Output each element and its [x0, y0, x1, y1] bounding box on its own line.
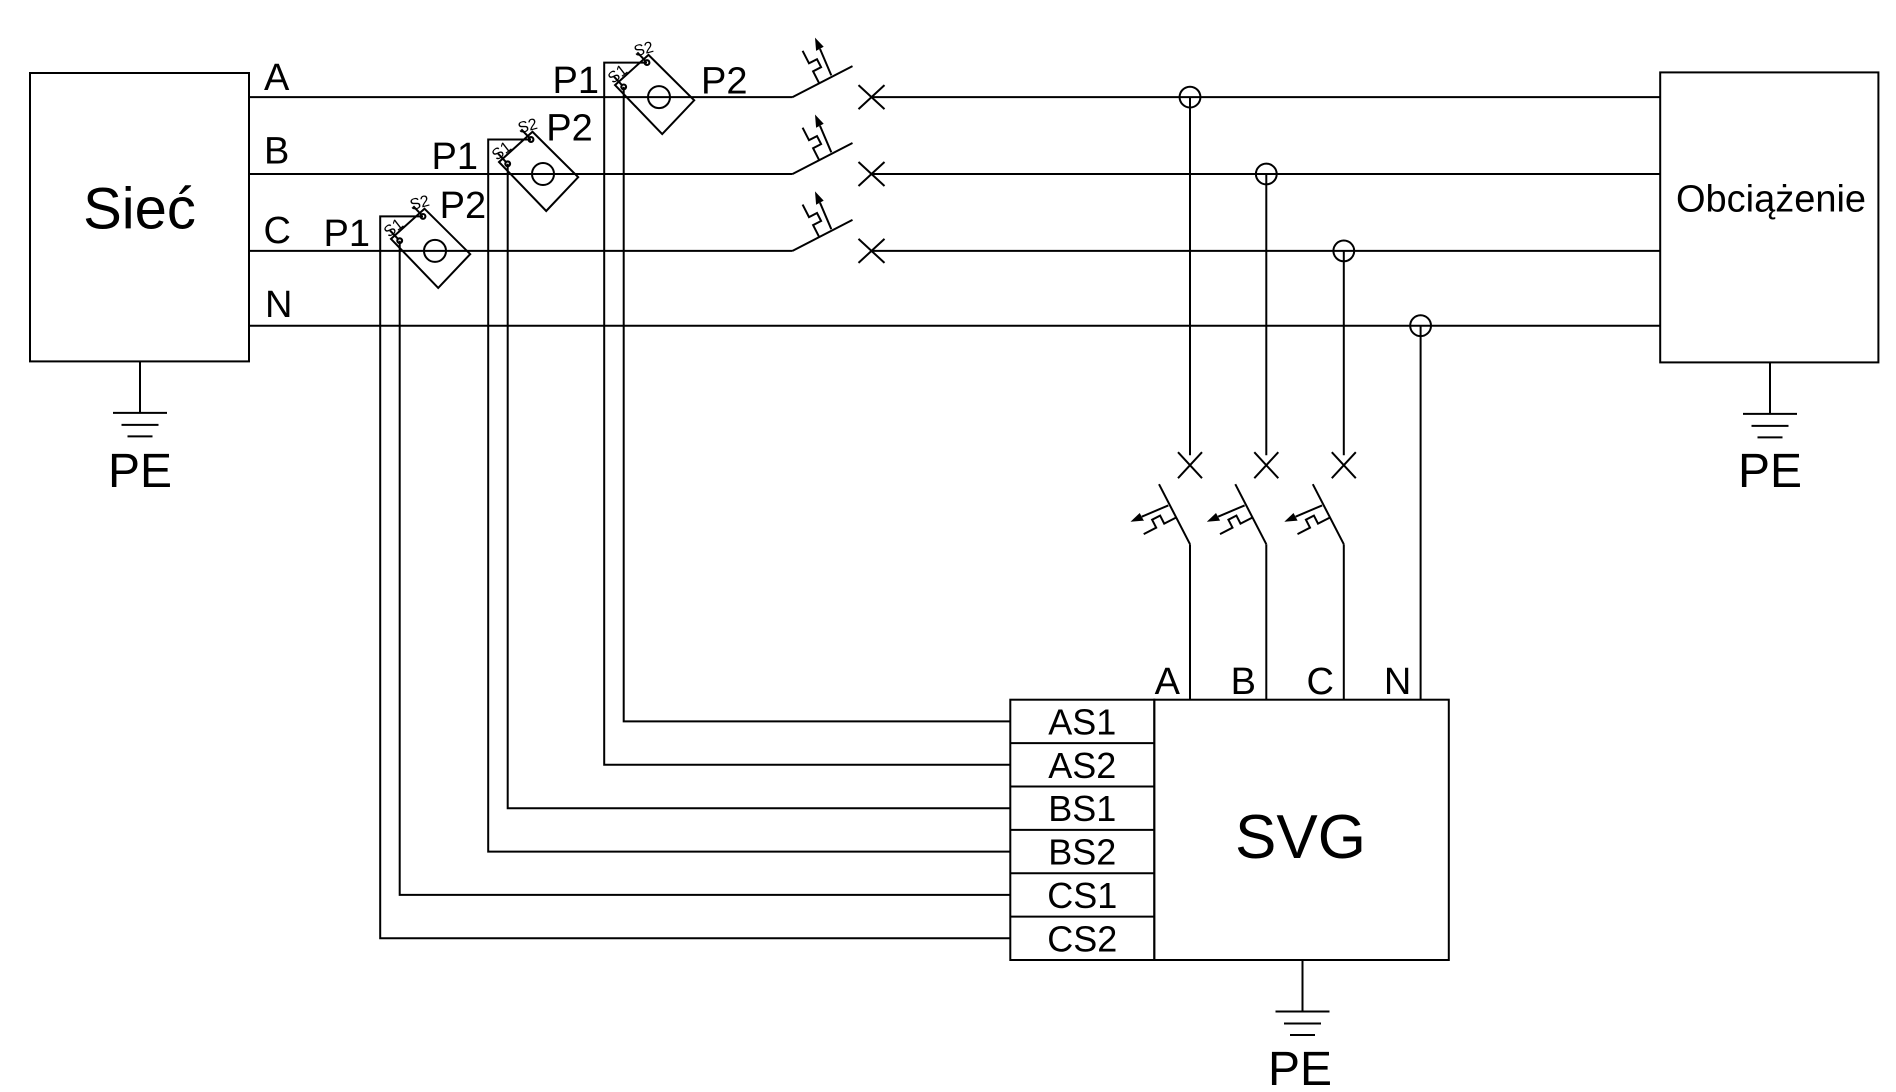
svg-text:P1: P1: [432, 136, 478, 178]
svg-text:PE: PE: [1738, 445, 1802, 498]
svg-text:C: C: [264, 210, 291, 252]
wire phase C left segment: [249, 250, 793, 252]
svg-text:P1: P1: [553, 60, 599, 102]
svg-text:P2: P2: [701, 61, 747, 103]
wire phase C right segment: [872, 250, 1660, 252]
SVG branch breaker C: [1284, 452, 1356, 544]
ground at SVG: [1276, 960, 1330, 1035]
svg-text:N: N: [265, 284, 292, 326]
node A junction: [1180, 87, 1201, 108]
SVG main box: [1154, 700, 1449, 960]
current transformer TA on phase A: [605, 39, 694, 134]
circuit breaker phase A: [793, 38, 885, 110]
terminal divider 5: [1010, 916, 1154, 918]
svg-text:N: N: [1384, 661, 1411, 703]
wire TB S2 to terminal BS2: [488, 140, 1010, 852]
tap wire C lower: [1343, 544, 1345, 700]
wire TC S1 to terminal CS1: [400, 241, 1011, 895]
wire neutral N: [249, 325, 1660, 327]
wire phase A left segment: [249, 96, 793, 98]
svg-text:BS1: BS1: [1048, 788, 1116, 829]
wire TC S2 to terminal CS2: [380, 216, 1010, 938]
circuit breaker phase C: [793, 191, 885, 263]
svg-text:A: A: [1155, 661, 1181, 703]
Sieć source box: [30, 73, 249, 361]
ground: [1743, 362, 1797, 437]
wire phase A right segment: [872, 96, 1660, 98]
terminal divider 3: [1010, 829, 1154, 831]
current transformer TC on phase C: [381, 193, 470, 288]
svg-text:Sieć: Sieć: [83, 177, 196, 242]
svg-text:AS2: AS2: [1048, 745, 1116, 786]
tap wire B upper: [1265, 174, 1267, 455]
tap wire C upper: [1343, 251, 1345, 455]
wire TB S1 to terminal BS1: [508, 164, 1011, 808]
terminal divider 4: [1010, 872, 1154, 874]
current transformer TB on phase B: [489, 116, 578, 211]
tap wire N: [1420, 326, 1422, 700]
terminal divider 2: [1010, 786, 1154, 788]
svg-text:B: B: [264, 131, 289, 173]
SVG branch breaker A: [1131, 452, 1203, 544]
node B junction: [1256, 164, 1277, 185]
node N junction: [1410, 315, 1431, 336]
svg-text:P1: P1: [324, 213, 370, 255]
svg-text:P2: P2: [546, 108, 592, 150]
ground: [113, 361, 167, 436]
wire TA S2 to terminal AS2: [604, 63, 1010, 765]
Obciążenie load box: [1660, 72, 1878, 362]
tap wire B lower: [1265, 544, 1267, 700]
wire phase B right segment: [872, 173, 1660, 175]
wire TA S1 to terminal AS1: [624, 87, 1011, 722]
svg-text:A: A: [264, 57, 290, 99]
svg-text:P2: P2: [440, 185, 486, 227]
svg-text:B: B: [1231, 661, 1256, 703]
wire phase B left segment: [249, 173, 793, 175]
svg-text:C: C: [1307, 661, 1334, 703]
svg-text:PE: PE: [108, 445, 172, 498]
terminal divider 1: [1010, 742, 1154, 744]
svg-text:CS1: CS1: [1047, 875, 1117, 916]
svg-text:PE: PE: [1268, 1043, 1332, 1092]
svg-text:SVG: SVG: [1235, 803, 1366, 872]
svg-text:CS2: CS2: [1047, 918, 1117, 959]
svg-text:AS1: AS1: [1048, 701, 1116, 742]
node C junction: [1333, 241, 1354, 262]
svg-text:Obciążenie: Obciążenie: [1676, 178, 1866, 220]
svg-text:BS2: BS2: [1048, 832, 1116, 873]
tap wire A upper: [1189, 97, 1191, 455]
tap wire A lower: [1189, 544, 1191, 700]
SVG branch breaker B: [1207, 452, 1279, 544]
terminal strip box: [1010, 700, 1154, 960]
circuit breaker phase B: [793, 115, 885, 187]
